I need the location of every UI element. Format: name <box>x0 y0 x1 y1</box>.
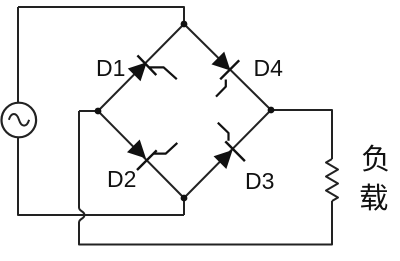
svg-text:D1: D1 <box>96 55 125 81</box>
svg-text:D4: D4 <box>254 55 284 81</box>
svg-text:D3: D3 <box>245 168 274 194</box>
svg-text:D2: D2 <box>107 166 136 192</box>
